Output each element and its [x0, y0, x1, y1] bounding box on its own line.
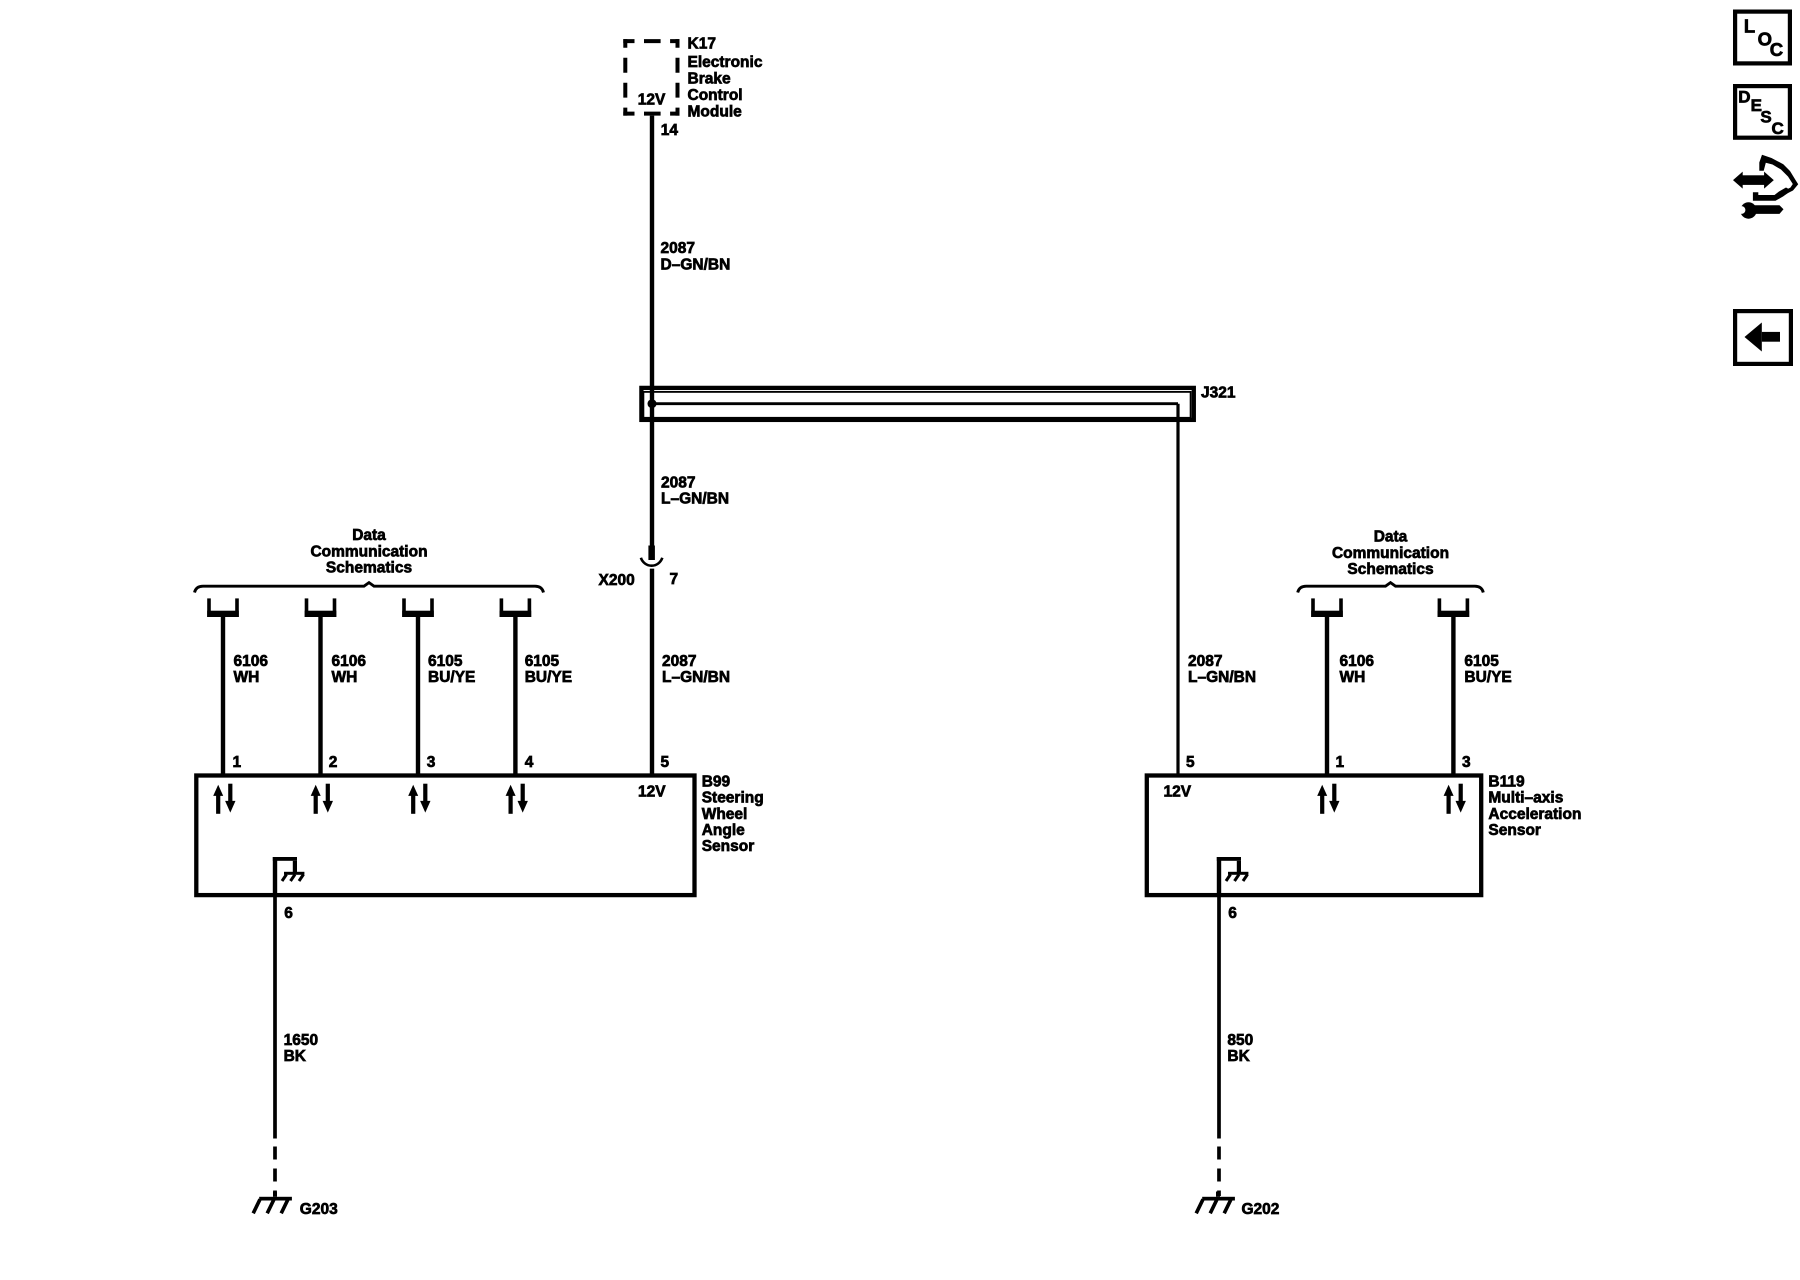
svg-text:6105: 6105 [1464, 653, 1499, 670]
module K17 Electronic Brake Control Module (dashed box) [623, 39, 679, 116]
label B99 Steering Wheel Angle Sensor [702, 773, 764, 855]
svg-text:Schematics: Schematics [326, 560, 412, 577]
svg-text:6105: 6105 [428, 653, 463, 670]
label K17 Electronic Brake Control Module [688, 36, 763, 121]
svg-text:6: 6 [284, 905, 293, 922]
svg-text:Acceleration: Acceleration [1488, 806, 1581, 823]
svg-text:D: D [1738, 87, 1750, 106]
off-page connector cup (wire 6105 BU/YE #3) [402, 598, 434, 617]
label wire 1650 BK [284, 1032, 318, 1065]
svg-text:Brake: Brake [688, 71, 731, 88]
svg-text:1: 1 [233, 754, 242, 771]
label Data Communication Schematics (left) [310, 527, 427, 577]
svg-text:C: C [1770, 39, 1783, 60]
svg-text:12V: 12V [638, 92, 666, 109]
svg-text:7: 7 [670, 571, 679, 588]
svg-text:Wheel: Wheel [702, 806, 748, 823]
svg-text:Data: Data [1374, 529, 1408, 546]
brace for left data communication group [195, 583, 544, 593]
svg-text:WH: WH [1340, 669, 1366, 686]
svg-text:6106: 6106 [234, 653, 269, 670]
svg-text:1: 1 [1336, 754, 1345, 771]
svg-text:6106: 6106 [1340, 653, 1375, 670]
svg-text:G202: G202 [1242, 1201, 1280, 1218]
svg-text:2087: 2087 [661, 240, 695, 257]
wire 6105 BU/YE to B119 pin 3 [1451, 617, 1455, 775]
svg-text:BU/YE: BU/YE [1464, 669, 1511, 686]
off-page connector cup (wire 6105 BU/YE #4) [500, 598, 532, 617]
junction dot on J321 bus [648, 399, 657, 408]
bidirectional arrows at B99 pin 2 [311, 784, 333, 814]
ground G202 [1196, 1192, 1235, 1214]
svg-text:Data: Data [352, 527, 386, 544]
svg-text:L–GN/BN: L–GN/BN [661, 491, 729, 508]
label Data Communication Schematics (right) [1332, 529, 1449, 579]
label B119 Multi-axis Acceleration Sensor [1488, 773, 1581, 839]
dashed wire segment to G202 [1217, 1147, 1221, 1197]
icon DESC letters [1738, 87, 1783, 138]
off-page connector cup (wire 6106 WH right) [1311, 598, 1343, 617]
wire 6105 BU/YE to B99 pin 3 [416, 617, 420, 775]
svg-text:2: 2 [329, 754, 338, 771]
svg-text:B119: B119 [1488, 773, 1525, 790]
svg-text:L: L [1744, 16, 1755, 37]
wire 2087 L-GN/BN from J321 to X200 [650, 404, 654, 546]
svg-text:6105: 6105 [525, 653, 560, 670]
icon DESC box [1735, 86, 1790, 138]
svg-text:G203: G203 [300, 1201, 338, 1218]
off-page connector cup (wire 6105 BU/YE right) [1438, 598, 1470, 617]
off-page connector cup (wire 6106 WH #2) [305, 598, 337, 617]
svg-text:2087: 2087 [662, 653, 696, 670]
svg-text:Electronic: Electronic [688, 54, 763, 71]
svg-text:Schematics: Schematics [1347, 561, 1433, 578]
svg-text:D–GN/BN: D–GN/BN [661, 257, 731, 274]
ground symbol inside B119 [1217, 857, 1249, 897]
svg-text:Multi–axis: Multi–axis [1488, 790, 1563, 807]
svg-text:BK: BK [1227, 1048, 1250, 1065]
sensor B99 Steering Wheel Angle Sensor box [196, 776, 694, 896]
junction block J321 inner rectangle [643, 392, 1190, 418]
svg-text:2087: 2087 [661, 475, 695, 492]
icon LOC letters [1744, 16, 1783, 61]
svg-text:5: 5 [661, 754, 670, 771]
svg-text:12V: 12V [1164, 783, 1192, 800]
sensor B119 Multi-axis Acceleration Sensor box [1147, 776, 1481, 896]
svg-text:3: 3 [427, 754, 436, 771]
svg-text:BU/YE: BU/YE [428, 669, 475, 686]
ground symbol inside B99 [273, 857, 305, 897]
svg-text:BU/YE: BU/YE [525, 669, 572, 686]
svg-text:6: 6 [1228, 905, 1237, 922]
svg-text:B99: B99 [702, 773, 731, 790]
dashed wire segment to G203 [273, 1147, 277, 1197]
svg-text:850: 850 [1227, 1032, 1253, 1049]
svg-text:L–GN/BN: L–GN/BN [1188, 669, 1256, 686]
svg-text:1650: 1650 [284, 1032, 318, 1049]
svg-text:Sensor: Sensor [702, 838, 755, 855]
svg-text:6106: 6106 [332, 653, 367, 670]
wire 2087 D-GN/BN from K17 pin 14 to J321 [650, 116, 654, 404]
svg-text:2087: 2087 [1188, 653, 1222, 670]
connector X200 pin 7 (inline connector symbol) [641, 546, 662, 566]
wire 6106 WH to B99 pin 1 [221, 617, 225, 775]
J321 internal bus wire [652, 402, 1178, 405]
svg-text:Communication: Communication [1332, 545, 1449, 562]
svg-text:WH: WH [234, 669, 260, 686]
wire 2087 L-GN/BN from X200 to B99 pin 5 [650, 569, 654, 775]
wire 6105 BU/YE to B99 pin 4 [513, 617, 517, 775]
label wire 2087 L-GN/BN (upper) [661, 475, 729, 508]
svg-text:Communication: Communication [310, 543, 427, 560]
svg-text:WH: WH [332, 669, 358, 686]
svg-text:Module: Module [688, 104, 743, 121]
svg-text:X200: X200 [599, 572, 635, 589]
svg-text:14: 14 [661, 122, 679, 139]
icon back arrow box [1735, 311, 1791, 364]
wire 850 BK from B119 pin 6 [1217, 897, 1221, 1139]
svg-text:BK: BK [284, 1048, 307, 1065]
svg-text:12V: 12V [638, 783, 666, 800]
label wire 6105 BU/YE (#3) [428, 653, 475, 686]
wire 1650 BK from B99 pin 6 [273, 897, 277, 1139]
off-page connector cup (wire 6106 WH #1) [207, 598, 239, 617]
label wire 6106 WH (#1) [234, 653, 269, 686]
label wire 2087 D-GN/BN [661, 240, 731, 274]
svg-text:J321: J321 [1201, 385, 1236, 402]
svg-text:Steering: Steering [702, 790, 764, 807]
bidirectional arrows at B119 pin 1 [1317, 784, 1339, 814]
bidirectional arrows at B99 pin 4 [506, 784, 528, 814]
svg-text:K17: K17 [688, 36, 716, 53]
svg-text:L–GN/BN: L–GN/BN [662, 669, 730, 686]
wire 2087 L-GN/BN from J321 to B119 pin 5 [1176, 404, 1179, 775]
svg-text:3: 3 [1462, 754, 1471, 771]
svg-text:Angle: Angle [702, 822, 745, 839]
bidirectional arrows at B99 pin 3 [408, 784, 430, 814]
label wire 6106 WH (#2) [332, 653, 367, 686]
junction block J321 outer rectangle [641, 388, 1193, 420]
svg-text:5: 5 [1186, 754, 1195, 771]
wire 6106 WH to B99 pin 2 [318, 617, 322, 775]
label wire 6106 WH (right) [1340, 653, 1375, 686]
icon LOC box [1735, 12, 1790, 64]
svg-text:Sensor: Sensor [1488, 822, 1541, 839]
label wire 6105 BU/YE (#4) [525, 653, 572, 686]
svg-text:Control: Control [688, 87, 743, 104]
bidirectional arrows at B119 pin 3 [1444, 784, 1466, 814]
svg-text:C: C [1772, 119, 1784, 138]
bidirectional arrows at B99 pin 1 [213, 784, 235, 814]
label wire 850 BK [1227, 1032, 1253, 1065]
icon back arrow [1745, 323, 1781, 352]
label wire 2087 L-GN/BN (lower) [662, 653, 730, 686]
wire 6106 WH to B119 pin 1 [1325, 617, 1329, 775]
label wire 6105 BU/YE (right) [1464, 653, 1511, 686]
ground G203 [253, 1192, 292, 1214]
brace for right data communication group [1298, 583, 1484, 593]
svg-text:4: 4 [525, 754, 534, 771]
label wire 2087 L-GN/BN (right branch) [1188, 653, 1256, 686]
icon schematic navigation (double arrow, loop, wrench) [1733, 155, 1798, 219]
svg-text:S: S [1760, 107, 1771, 126]
